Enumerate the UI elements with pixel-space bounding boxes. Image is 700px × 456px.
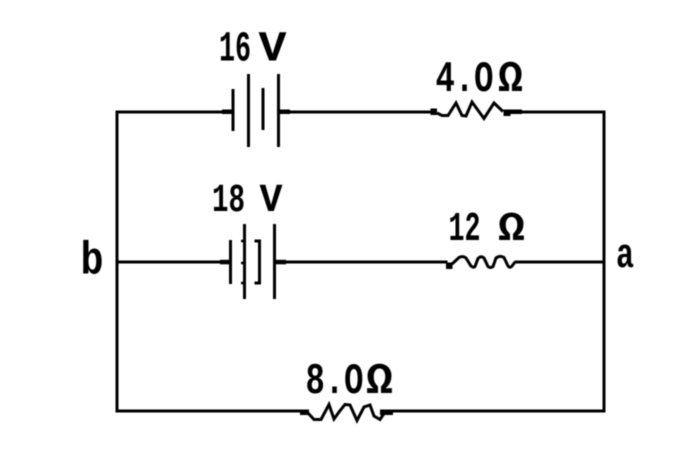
svg-text:12: 12 [449,207,481,253]
svg-text:4.O: 4.O [436,56,494,105]
B2 plate tall with ticks [241,224,245,299]
B1 plate short left [232,89,235,131]
B1 plate short mid [262,88,265,130]
resistor R1 4.0ohm [431,102,523,119]
wire middle-left segment [117,261,229,264]
wire top-right segment [521,111,604,114]
battery B1 16V [222,74,290,147]
B1 right wire stub [279,110,290,115]
B1 plate tall right [277,74,280,147]
svg-text:V: V [260,179,283,224]
svg-text:b: b [81,236,104,288]
wire bottom-right segment [391,410,604,413]
B1 plate tall [247,74,250,147]
B2 bracket plate [255,241,260,283]
B1 left wire stub [222,110,233,115]
B2 left wire stub [220,260,230,265]
resistor R2 12ohm [446,256,515,269]
svg-text:8.O: 8.O [306,358,364,407]
svg-text:V: V [259,26,288,74]
B2 plate short left [229,240,232,284]
svg-text:Ω: Ω [366,358,393,407]
resistor R3 8.0ohm [300,405,393,421]
battery B2 18V [220,224,286,299]
wire right vertical a-side [603,112,606,411]
svg-text:18: 18 [212,179,245,224]
wire left vertical b-side [116,112,119,411]
wire middle-right segment [516,261,604,264]
B2 plate tall right [273,224,276,299]
svg-text:Ω: Ω [498,56,523,105]
wire bottom-left segment [117,410,302,413]
svg-text:a: a [616,233,634,280]
wire middle-center segment [277,261,446,264]
wire top-left segment [117,111,231,114]
B2 right wire stub [275,260,286,265]
svg-text:Ω: Ω [498,207,525,253]
wire top-middle segment [280,111,432,114]
svg-text:16: 16 [219,26,251,74]
